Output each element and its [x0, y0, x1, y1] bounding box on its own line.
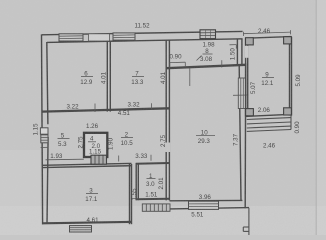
tick on left wall — [41, 146, 49, 148]
wall room7/10 long vertical — [165, 40, 167, 201]
window room3 bottom — [70, 226, 92, 232]
tick 3.22/3.32 — [94, 104, 96, 113]
wall left outer — [42, 34, 43, 224]
wall top outer — [42, 31, 243, 34]
wall room10 right outer — [244, 63, 247, 208]
wall bottom of rooms 6/7 — [42, 108, 169, 111]
sheet fold line right — [315, 0, 317, 235]
wall middle band bottom (room3 top) — [42, 163, 132, 165]
room 9 top wall — [246, 37, 292, 39]
chimney on top wall — [200, 30, 216, 39]
door leaf room 10 — [189, 68, 191, 86]
wall divider rooms 6/7 — [106, 41, 108, 112]
stove flue hatch below — [91, 155, 107, 164]
dim line 1.93 — [46, 158, 84, 161]
door gap room2 to room10 — [165, 143, 170, 153]
room 9 left wall — [245, 38, 247, 117]
wall room3 right — [129, 164, 131, 224]
light bottom area — [0, 206, 326, 235]
room 10 bottom wall upper — [170, 199, 243, 201]
room 10 bottom wall lower — [170, 208, 249, 209]
window W1 top wall striped — [59, 34, 83, 41]
room 9 right wall — [289, 37, 291, 116]
wall top inner — [47, 39, 243, 43]
dim tick near 1.50 top — [230, 44, 237, 46]
dimension line 2.46 top — [243, 30, 290, 36]
wall room8 bottom / room10 top — [166, 65, 246, 68]
window right wall — [233, 78, 248, 109]
corner post TL — [246, 38, 254, 45]
tick 3.08/1.50 — [221, 60, 223, 67]
wall room10 right inner — [239, 66, 241, 201]
door opening 0.90 jambs — [169, 63, 171, 68]
window W2 top wall plain — [89, 34, 110, 41]
room 1 left wall — [135, 163, 137, 200]
window left wall — [40, 128, 48, 134]
window room10 bottom — [189, 201, 219, 209]
porch outline bottom right — [243, 208, 249, 235]
vent left wall striped — [41, 135, 48, 143]
wall room3 bottom — [42, 222, 131, 223]
wall room8 right vertical — [236, 39, 238, 65]
hatched vent band below room 1 — [142, 204, 170, 211]
room 1 bottom wall — [136, 198, 170, 201]
room 1 box top wall — [136, 162, 170, 165]
window W3 top wall striped — [113, 33, 135, 40]
light left-bottom area — [0, 150, 40, 235]
wall left inner lower — [47, 137, 48, 224]
room 9 bottom wall — [246, 114, 292, 116]
dimension line 0.90 — [170, 61, 186, 63]
corner post TR — [284, 37, 292, 44]
wall left inner upper — [47, 42, 48, 124]
door gap room9 left wall — [245, 46, 249, 58]
corner post BR — [284, 108, 292, 115]
porch steps below room 9 — [247, 115, 291, 131]
stove room 4 box — [84, 133, 107, 157]
corner post BL — [246, 109, 254, 116]
